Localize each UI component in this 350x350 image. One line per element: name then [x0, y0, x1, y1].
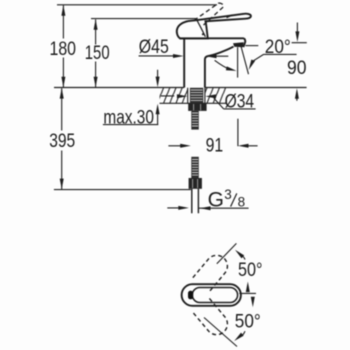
- threaded rod lower section: [191, 157, 199, 178]
- svg-text:20°: 20°: [265, 36, 291, 58]
- lever raised position (dashed): [194, 3, 224, 25]
- water stream vertical line: [237, 47, 239, 77]
- aerator outlet (black): [233, 42, 244, 47]
- mounting nut below counter: [188, 103, 206, 111]
- plan view: pivot slot: [188, 291, 193, 300]
- lever-top reference line (150 level): [91, 18, 197, 20]
- svg-text:3: 3: [224, 187, 232, 202]
- dimension 90 (spout height): [292, 23, 307, 101]
- svg-text:180: 180: [50, 38, 77, 60]
- plan view: center small arrow up: [246, 282, 250, 293]
- svg-text:50°: 50°: [235, 310, 261, 332]
- svg-text:395: 395: [49, 130, 75, 152]
- plan view: handle capsule inner: [192, 288, 237, 303]
- dimension 395: [60, 88, 64, 189]
- lever neck interior line: [197, 20, 205, 37]
- threaded shank in counter: [190, 88, 203, 103]
- dimension 20° (spout angle) text + leader: [252, 54, 297, 61]
- plan view: solid handle capsule outer: [182, 284, 241, 306]
- plan view: upper arc arrow: [234, 248, 245, 259]
- svg-text:91: 91: [206, 135, 224, 157]
- faucet body left edge: [183, 38, 185, 87]
- faucet body top plate and spout top: [180, 37, 245, 39]
- threaded rod upper section: [191, 111, 199, 130]
- counter hatching right: [205, 88, 227, 103]
- angle arc right with arrow: [247, 59, 255, 70]
- spout underside and body right edge: [205, 47, 234, 88]
- lever handle (solid, closed position): [177, 14, 251, 39]
- plan view: lower diagonal extension: [204, 318, 237, 347]
- dimension 180: [61, 5, 65, 87]
- dimension 150: [94, 19, 98, 87]
- svg-text:Ø34: Ø34: [225, 91, 255, 113]
- plan view: center small arrow down: [251, 297, 255, 308]
- counter hatching left: [160, 88, 188, 103]
- svg-text:8: 8: [238, 194, 246, 209]
- plan view: handle rotated +50 up (dashed): [193, 251, 232, 292]
- svg-text:G: G: [208, 188, 224, 211]
- plan view: centerline tick: [239, 292, 256, 294]
- lever knuckle dot: [202, 33, 204, 35]
- svg-text:50°: 50°: [238, 259, 263, 281]
- svg-text:90: 90: [287, 57, 307, 79]
- dimension Ø45 (body diameter): [139, 54, 229, 58]
- dimension Ø34 (hole diameter): [161, 94, 256, 109]
- top reference line (180 level): [57, 4, 217, 6]
- counter bottom line: [160, 102, 228, 104]
- outlet level extension line: [246, 45, 259, 47]
- counter hole edge left: [187, 88, 189, 104]
- dimension G3/8 (connection thread): [167, 206, 248, 210]
- spout tip corner: [243, 38, 245, 47]
- svg-text:Ø45: Ø45: [139, 36, 169, 58]
- angle arc left with arrow: [215, 60, 237, 73]
- counter top surface line: [54, 87, 307, 89]
- plan view: lower arc arrow: [233, 331, 245, 342]
- counter hole edge right: [204, 88, 206, 104]
- dimension max.30 (counter thickness): [103, 70, 160, 125]
- 91 extension line from outlet: [237, 119, 239, 147]
- supply pipe: [192, 189, 199, 213]
- 395 bottom reference line: [54, 189, 191, 191]
- svg-text:150: 150: [85, 42, 110, 64]
- hex nut on rod: [189, 178, 202, 189]
- plan view: upper diagonal extension: [217, 243, 237, 263]
- dimension 91 (projection): [168, 144, 257, 148]
- water stream slanted line: [241, 47, 248, 74]
- plan view: handle rotated 50 down (dashed): [193, 298, 232, 339]
- lever blade edge mark: [227, 15, 233, 18]
- svg-text:max.30: max.30: [103, 107, 153, 128]
